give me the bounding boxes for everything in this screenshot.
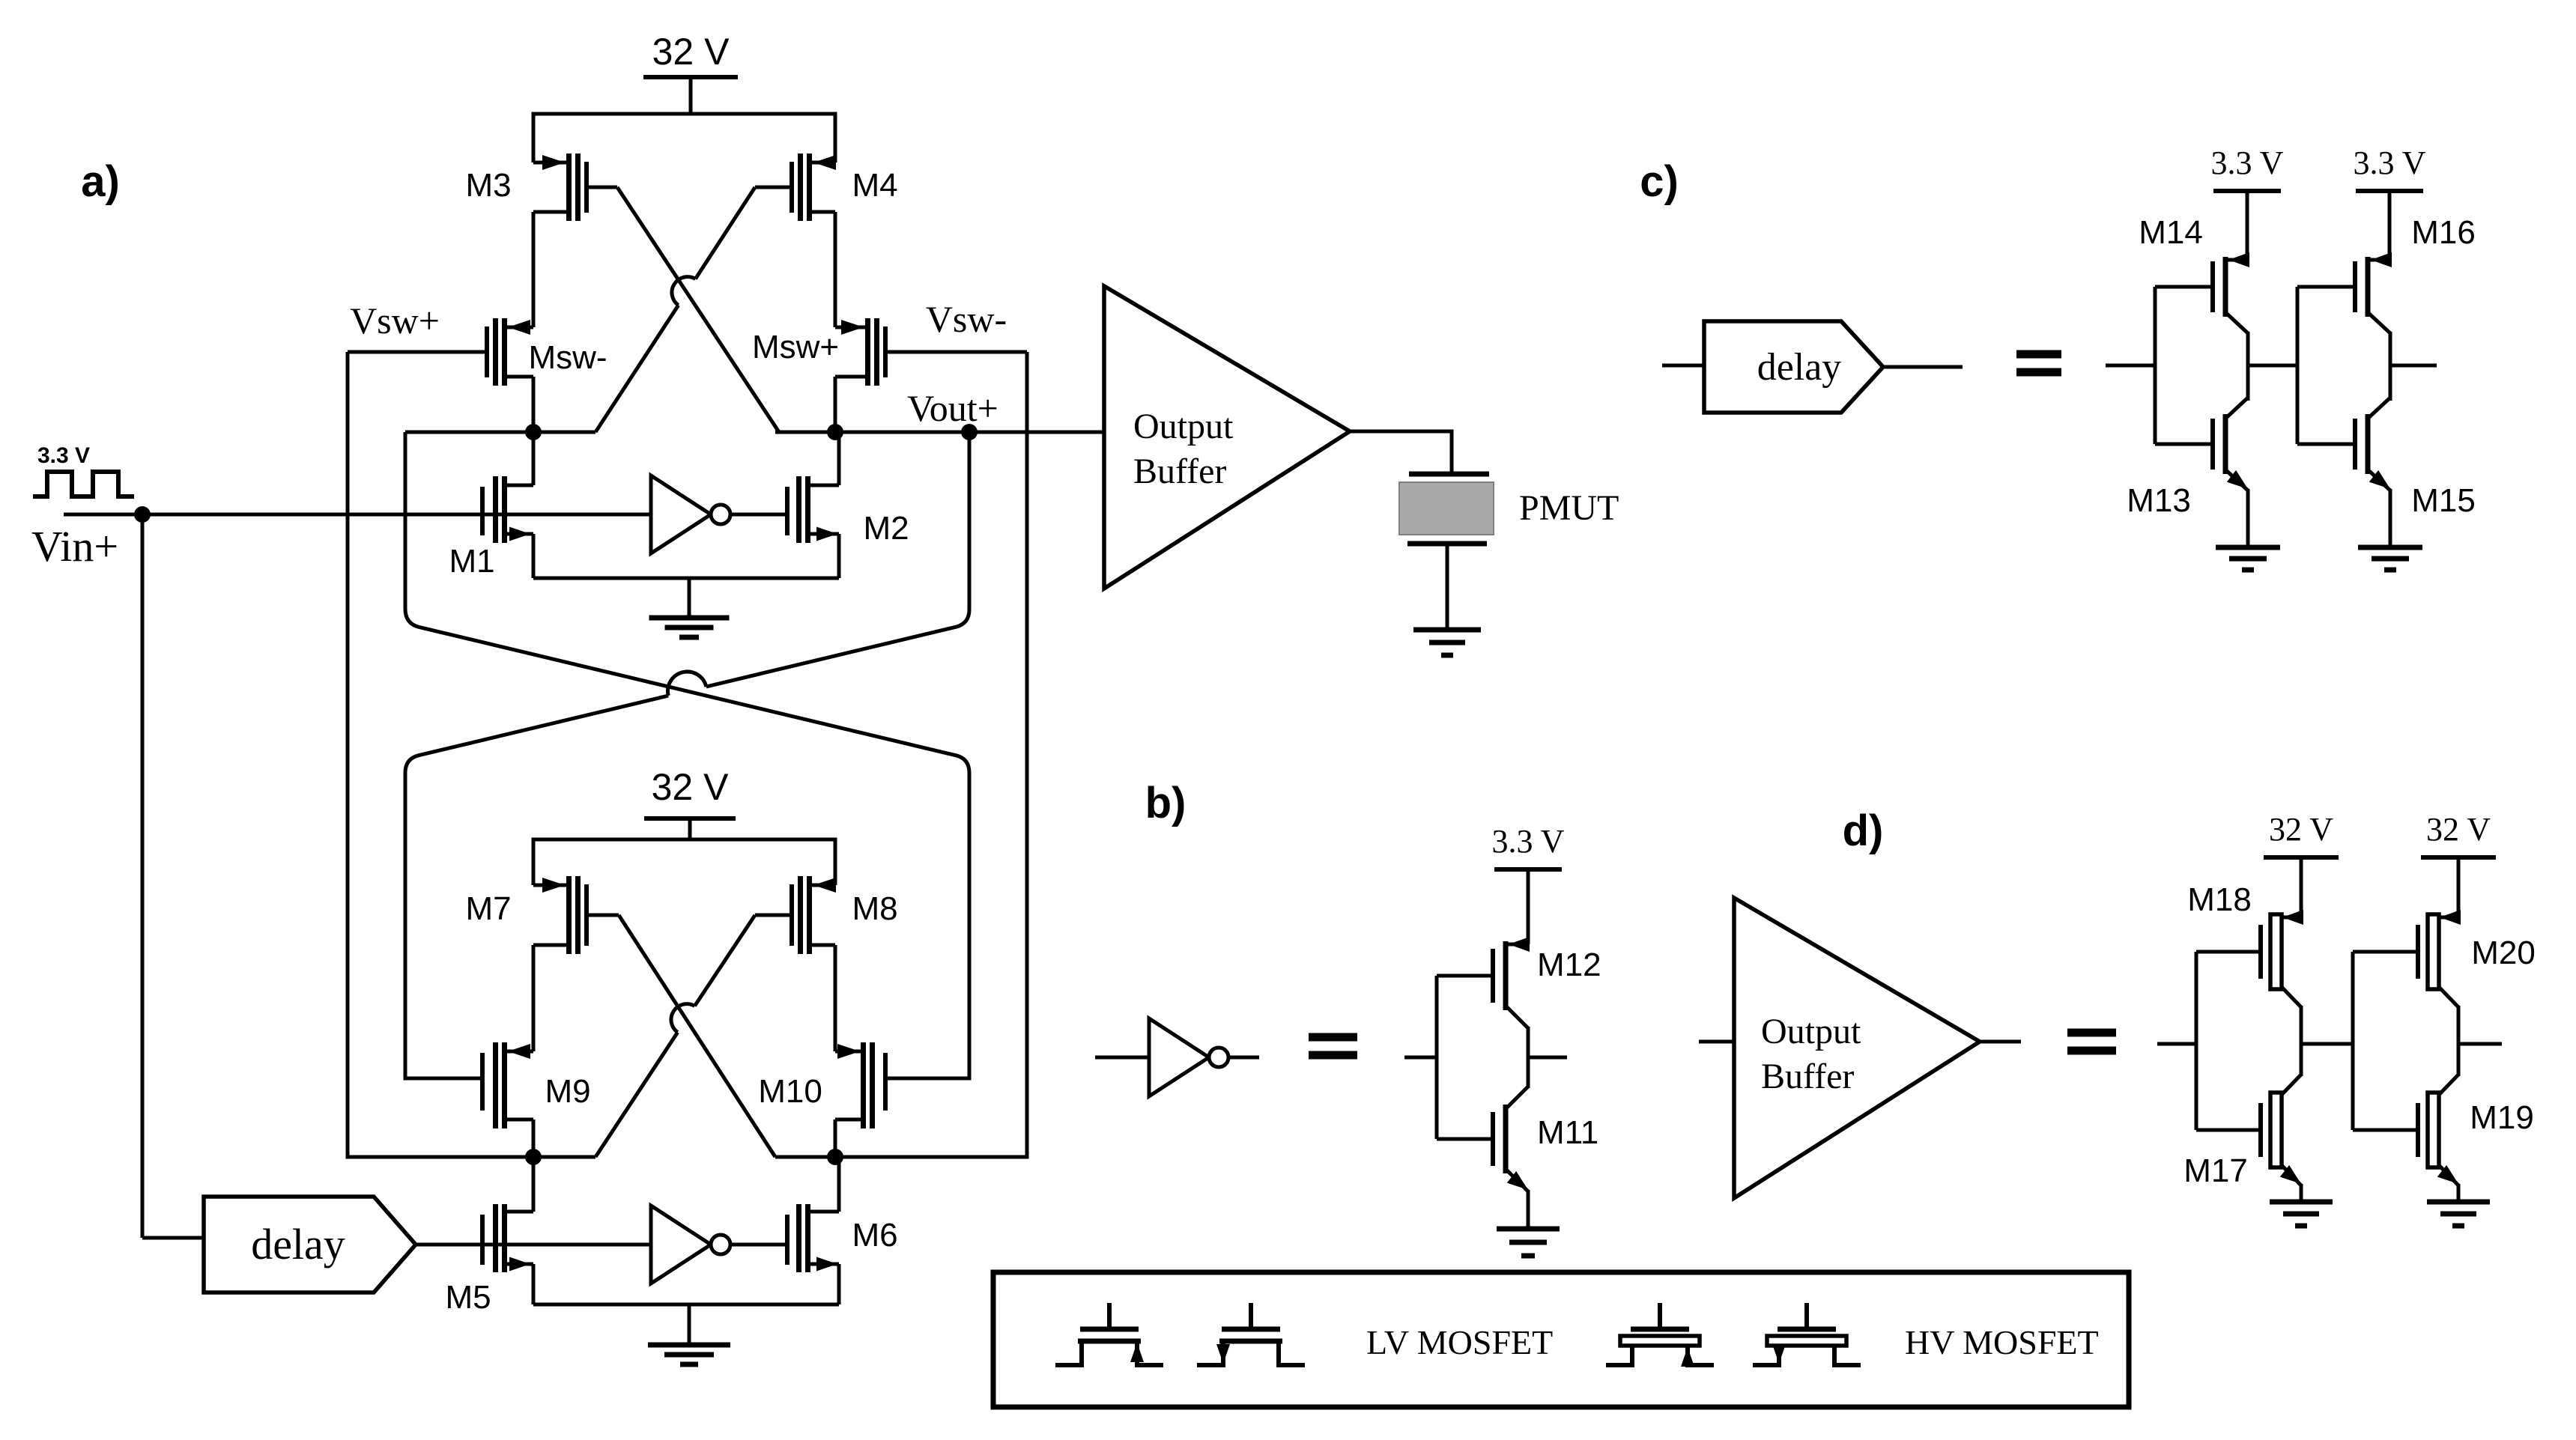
- section label c): [1640, 157, 1679, 206]
- svg-text:Buffer: Buffer: [1133, 452, 1226, 491]
- label M19: [2470, 1099, 2534, 1136]
- equals (b): [1309, 1037, 1357, 1055]
- power symbol 3.3V (c2): [2356, 191, 2423, 260]
- label M13: [2127, 482, 2191, 519]
- label M3: [465, 167, 511, 204]
- svg-text:M16: M16: [2411, 214, 2476, 251]
- transistor M19: [2353, 1075, 2458, 1185]
- wire delay-c input: [1662, 364, 1704, 368]
- wire d1 inner drain rail: [2300, 1006, 2303, 1076]
- node left (Msw- drain / M1 drain): [525, 424, 542, 440]
- power symbol 32V (d2): [2421, 857, 2496, 917]
- ground stem (top section): [688, 578, 691, 618]
- wire cross Vout+ to M9 gate (diagonal B with hop): [405, 432, 969, 1078]
- svg-text:M10: M10: [758, 1073, 822, 1110]
- supply 32 V label (top): [652, 31, 730, 73]
- wire b output: [1528, 1056, 1567, 1060]
- supply 32 V label (d1): [2269, 811, 2333, 848]
- wire c2 source to ground: [2389, 489, 2392, 547]
- transistor M12: [1437, 937, 1530, 1028]
- label M6: [852, 1217, 897, 1254]
- wire Vsw- vertical (Msw+ gate to lower-right node): [835, 352, 1027, 1157]
- wire inverter out to M6 gate: [730, 1243, 785, 1247]
- node Vin+ junction: [134, 506, 151, 523]
- svg-text:HV MOSFET: HV MOSFET: [1905, 1323, 2099, 1361]
- svg-text:M3: M3: [465, 167, 511, 204]
- label Output Buffer (d): [1761, 1012, 1861, 1096]
- transistor M2: [787, 432, 839, 578]
- equals (c): [2016, 354, 2061, 372]
- power symbol 32V (bottom): [644, 818, 736, 839]
- wire cross left-node to M10 gate (diagonal A): [405, 432, 969, 1078]
- svg-text:M19: M19: [2470, 1099, 2534, 1136]
- label PMUT: [1519, 488, 1619, 528]
- svg-text:M15: M15: [2411, 482, 2476, 519]
- label M16: [2411, 214, 2476, 251]
- wire top rail: [533, 114, 835, 162]
- output buffer triangle (d): [1734, 898, 1980, 1198]
- label M8: [852, 890, 897, 927]
- wire Vout+ row: [775, 431, 1104, 434]
- wire Msw- drain down: [532, 377, 536, 432]
- wire b source to ground: [1527, 1190, 1530, 1229]
- wire Vin+ to delay (left vertical): [142, 514, 204, 1238]
- legend box: [993, 1272, 2129, 1407]
- svg-text:a): a): [81, 157, 120, 206]
- svg-text:M11: M11: [1537, 1114, 1598, 1151]
- inverter (M1-M2 row): [651, 476, 730, 553]
- wire inverter out to M2 gate: [730, 513, 785, 517]
- delay block (a): [204, 1197, 416, 1292]
- transistor M3: [533, 154, 617, 221]
- transistor M11: [1437, 1087, 1528, 1191]
- transistor M8: [755, 876, 836, 954]
- svg-text:M8: M8: [852, 890, 897, 927]
- legend HV PMOS symbol: [1753, 1303, 1861, 1365]
- wire Msw+ drain down: [834, 377, 837, 432]
- transistor M17: [2196, 1075, 2301, 1185]
- wire b gate rail: [1435, 976, 1439, 1139]
- wire d2 inner drain rail: [2457, 1006, 2461, 1076]
- wire c1 input: [2106, 364, 2155, 368]
- label M4: [852, 167, 897, 204]
- wire bottom-right node row: [775, 1155, 1027, 1159]
- output buffer triangle (a): [1104, 286, 1350, 589]
- node Vout+ a (Msw+ drain / M2 drain): [827, 424, 843, 440]
- wire M5-M6 source rail: [533, 1303, 839, 1307]
- net Vin+ label: [31, 522, 118, 571]
- wire d1 source to ground: [2300, 1184, 2303, 1202]
- transistor M20: [2353, 910, 2461, 1007]
- svg-text:M12: M12: [1537, 947, 1601, 983]
- svg-text:Output: Output: [1133, 407, 1234, 446]
- supply 32 V label (d2): [2426, 811, 2491, 848]
- power symbol 3.3V (b): [1494, 869, 1562, 944]
- svg-text:M5: M5: [445, 1279, 491, 1316]
- svg-text:32 V: 32 V: [2269, 811, 2333, 848]
- ground (d2): [2427, 1202, 2490, 1226]
- wire c1 gate rail: [2154, 287, 2157, 444]
- svg-text:32 V: 32 V: [652, 31, 730, 73]
- power symbol 32V (top): [643, 77, 738, 114]
- label M12: [1537, 947, 1601, 983]
- wire d2 gate rail: [2351, 952, 2355, 1130]
- wire d buffer input: [1699, 1040, 1734, 1044]
- svg-text:3.3 V: 3.3 V: [1492, 823, 1565, 860]
- node bottom-left: [525, 1149, 542, 1165]
- wire c2 output: [2390, 364, 2437, 368]
- PMUT body: [1399, 482, 1494, 535]
- svg-text:M14: M14: [2139, 214, 2203, 251]
- wire b input: [1404, 1056, 1437, 1060]
- label Msw+: [752, 329, 839, 365]
- svg-text:b): b): [1145, 779, 1187, 827]
- input pulse waveform: [33, 472, 134, 496]
- transistor M1: [482, 432, 533, 578]
- legend LV NMOS symbol: [1055, 1303, 1163, 1365]
- supply 3.3 V label (b): [1492, 823, 1565, 860]
- wire d gate rail: [2195, 952, 2198, 1130]
- wire M4 drain to Msw+ source: [834, 212, 837, 327]
- ground (top section): [649, 618, 730, 637]
- svg-text:delay: delay: [1757, 346, 1842, 389]
- ground (c1): [2216, 547, 2280, 570]
- wire bottom-left node row: [348, 1155, 595, 1159]
- svg-text:delay: delay: [251, 1220, 345, 1269]
- wire buffer out to PMUT: [1350, 431, 1452, 474]
- transistor M18: [2196, 910, 2303, 1007]
- wire M4 gate cross diagonal with hop: [595, 187, 755, 432]
- svg-text:d): d): [1843, 806, 1884, 855]
- wire d buffer output: [1980, 1040, 2021, 1044]
- svg-text:32 V: 32 V: [2426, 811, 2491, 848]
- label M5: [445, 1279, 491, 1316]
- legend label LV MOSFET: [1366, 1323, 1553, 1361]
- wire c2 inner drain rail: [2389, 332, 2392, 401]
- label M2: [863, 510, 909, 547]
- label delay (c): [1757, 346, 1842, 389]
- svg-text:M13: M13: [2127, 482, 2191, 519]
- label M1: [449, 543, 494, 580]
- node Vout+ b (to lower X): [961, 424, 978, 440]
- wire delay-c output: [1883, 365, 1963, 369]
- net Vout+ label: [907, 387, 998, 429]
- delay block (c): [1704, 321, 1883, 413]
- transistor M4: [755, 154, 836, 221]
- label M17: [2183, 1152, 2248, 1189]
- wire d1 output: [2301, 1042, 2353, 1046]
- svg-text:Buffer: Buffer: [1761, 1057, 1854, 1096]
- svg-text:LV MOSFET: LV MOSFET: [1366, 1323, 1553, 1361]
- svg-text:3.3 V: 3.3 V: [37, 443, 90, 468]
- ground stem (bottom section): [688, 1304, 691, 1345]
- legend HV NMOS symbol: [1606, 1303, 1714, 1367]
- wire M8 gate cross diagonal with hop: [595, 915, 755, 1157]
- legend label HV MOSFET: [1905, 1323, 2099, 1361]
- wire c1 source to ground: [2246, 489, 2250, 547]
- wire M7 gate cross diagonal: [619, 915, 775, 1157]
- section label b): [1145, 779, 1187, 827]
- wire M8 drain to M10 source: [834, 945, 837, 1051]
- wire bottom rail: [533, 839, 835, 885]
- svg-text:Vout+: Vout+: [907, 387, 998, 429]
- svg-text:M18: M18: [2187, 881, 2252, 918]
- label M9: [545, 1073, 590, 1110]
- svg-text:3.3 V: 3.3 V: [2211, 145, 2284, 181]
- label M10: [758, 1073, 822, 1110]
- label M7: [465, 890, 511, 927]
- transistor M5: [482, 1157, 533, 1304]
- wire M10 drain down: [834, 1120, 837, 1157]
- supply 3.3 V label (c1): [2211, 145, 2284, 181]
- label M14: [2139, 214, 2203, 251]
- wire d2 source to ground: [2457, 1184, 2461, 1202]
- ground (c2): [2358, 547, 2422, 570]
- ground (b): [1497, 1229, 1560, 1256]
- net Vsw+ label: [350, 300, 440, 341]
- label Output Buffer (a): [1133, 407, 1234, 491]
- transistor M13: [2155, 398, 2248, 490]
- inverter symbol (b): [1149, 1018, 1228, 1096]
- wire Vsw+ vertical (Msw- gate to lower-left node): [348, 352, 533, 1157]
- transistor M9: [479, 1042, 533, 1128]
- label M11: [1537, 1114, 1598, 1151]
- transistor Msw+: [835, 318, 1027, 386]
- wire b inverter input: [1095, 1056, 1149, 1060]
- svg-text:M9: M9: [545, 1073, 590, 1110]
- net Vsw- label: [926, 298, 1007, 340]
- transistor M16: [2297, 252, 2392, 333]
- label M15: [2411, 482, 2476, 519]
- 3.3 V pulse amplitude label: [37, 443, 90, 468]
- wire M3 gate cross diagonal: [617, 187, 779, 432]
- wire Vin+ horizontal: [64, 513, 651, 517]
- svg-text:M2: M2: [863, 510, 909, 547]
- power symbol 3.3V (c1): [2213, 191, 2281, 260]
- node bottom-right: [827, 1149, 843, 1165]
- svg-text:M20: M20: [2471, 935, 2536, 971]
- equals (d): [2067, 1033, 2116, 1051]
- transistor M6: [787, 1157, 839, 1304]
- svg-text:M4: M4: [852, 167, 897, 204]
- section label d): [1843, 806, 1884, 855]
- ground (d1): [2270, 1202, 2333, 1226]
- svg-text:M6: M6: [852, 1217, 897, 1254]
- wire PMUT to ground: [1446, 544, 1449, 630]
- wire delay out: [416, 1243, 482, 1247]
- svg-text:PMUT: PMUT: [1519, 488, 1619, 528]
- wire d2 output: [2458, 1042, 2502, 1046]
- wire b inverter output: [1228, 1056, 1259, 1060]
- wire c1 output: [2248, 364, 2297, 368]
- transistor M7: [533, 876, 619, 954]
- svg-text:Msw-: Msw-: [528, 339, 607, 376]
- transistor M14: [2155, 252, 2249, 333]
- PMUT bottom plate: [1407, 541, 1487, 547]
- supply 32 V label (bottom): [652, 766, 730, 808]
- wire c1 inner drain rail: [2246, 332, 2250, 401]
- svg-text:32 V: 32 V: [652, 766, 730, 808]
- ground (PMUT): [1413, 630, 1481, 655]
- legend LV PMOS symbol: [1197, 1303, 1305, 1365]
- wire M9 drain down: [532, 1120, 536, 1157]
- supply 3.3 V label (c2): [2354, 145, 2426, 181]
- svg-text:M1: M1: [449, 543, 494, 580]
- power symbol 32V (d1): [2264, 857, 2339, 917]
- transistor Msw-: [348, 318, 533, 386]
- ground (bottom section): [648, 1345, 730, 1364]
- svg-text:Vin+: Vin+: [31, 522, 118, 571]
- svg-text:Vsw+: Vsw+: [350, 300, 440, 341]
- wire c2 gate rail: [2296, 287, 2300, 444]
- label M18: [2187, 881, 2252, 918]
- PMUT top plate: [1409, 472, 1489, 477]
- wire d input: [2157, 1042, 2196, 1046]
- wire M5 gate row: [482, 1243, 651, 1247]
- svg-text:M17: M17: [2183, 1152, 2248, 1189]
- inverter (M5-M6 row): [651, 1206, 730, 1283]
- label Msw-: [528, 339, 607, 376]
- svg-text:Vsw-: Vsw-: [926, 298, 1007, 340]
- wire b inner drain rail: [1527, 1027, 1530, 1088]
- svg-text:Msw+: Msw+: [752, 329, 839, 365]
- wire M3 drain to Msw- source: [532, 212, 536, 327]
- label M20: [2471, 935, 2536, 971]
- transistor M10: [835, 1042, 888, 1128]
- section label a): [81, 157, 120, 206]
- wire M7 drain to M9 source: [532, 945, 536, 1051]
- svg-text:Output: Output: [1761, 1012, 1861, 1051]
- wire left node row: [405, 431, 595, 434]
- svg-text:c): c): [1640, 157, 1679, 206]
- svg-text:3.3 V: 3.3 V: [2354, 145, 2426, 181]
- wire M1-M2 source rail: [533, 577, 839, 580]
- svg-text:M7: M7: [465, 890, 511, 927]
- label delay (a): [251, 1220, 345, 1269]
- transistor M15: [2297, 398, 2390, 490]
